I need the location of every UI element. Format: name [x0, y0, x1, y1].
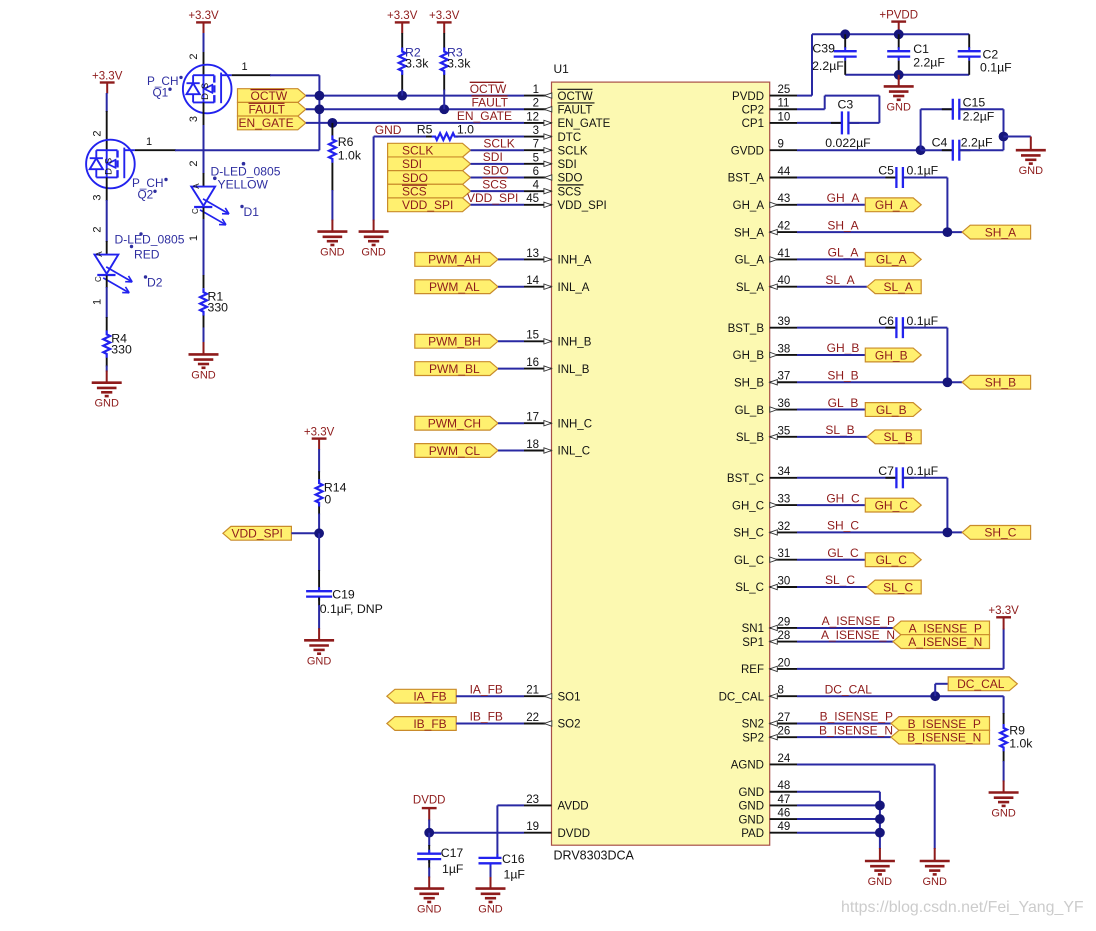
svg-text:3: 3 [533, 125, 539, 137]
wire junction to C19 [318, 533, 320, 571]
svg-text:SL_C: SL_C [825, 573, 855, 587]
junction EN_GATE/R6 [328, 118, 338, 128]
junction OCTW/R2 [397, 91, 407, 101]
svg-text:R5: R5 [417, 122, 433, 136]
wire SCLK [471, 149, 525, 151]
wire SL_A [797, 286, 867, 288]
svg-text:SP1: SP1 [742, 637, 764, 649]
U1 pin 31 (GL_C) [770, 559, 797, 561]
svg-text:SL_A: SL_A [883, 280, 912, 294]
junction DC_CAL [930, 691, 940, 701]
U1 pin 28 (SP1) [770, 641, 797, 643]
svg-text:https://blog.csdn.net/Fei_Yang: https://blog.csdn.net/Fei_Yang_YF [841, 899, 1084, 916]
junction +PVDD rail [894, 29, 904, 39]
svg-text:+3.3V: +3.3V [304, 426, 335, 438]
svg-text:GND: GND [738, 801, 764, 813]
net flag SH_C [962, 526, 1030, 540]
svg-text:Q2: Q2 [138, 187, 154, 201]
U1 pin 47 (GND) [770, 804, 797, 806]
svg-text:SL_B: SL_B [883, 430, 912, 444]
svg-text:SDO: SDO [402, 171, 428, 185]
svg-text:D2: D2 [147, 276, 163, 290]
capacitor C16 1uF [479, 857, 502, 859]
svg-text:CP2: CP2 [742, 104, 764, 116]
junction GND tap [999, 132, 1009, 142]
svg-text:21: 21 [526, 685, 539, 697]
LED D2 red [95, 255, 119, 274]
ground (R1) [189, 353, 219, 356]
svg-text:B_ISENSE_P: B_ISENSE_P [820, 710, 893, 724]
svg-text:2: 2 [91, 226, 103, 232]
U1 pin 1 (OCTW) [524, 95, 552, 97]
wire +3.3V to Q1 drain [203, 33, 205, 52]
svg-text:PWM_CH: PWM_CH [428, 417, 481, 431]
svg-text:1: 1 [188, 235, 200, 241]
wire to GND (DTC net) [373, 137, 375, 221]
capacitor C4 2.2uF [921, 149, 953, 151]
wire PWM_BL [498, 368, 524, 370]
wire SL_B [797, 436, 867, 438]
svg-text:SO1: SO1 [558, 691, 581, 703]
svg-text:1µF: 1µF [442, 862, 464, 876]
capacitor C5 0.1uF [885, 177, 896, 179]
svg-text:SDO: SDO [558, 173, 583, 185]
svg-text:D1: D1 [244, 205, 260, 219]
net flag SDO [388, 171, 471, 185]
net flag GH_B [865, 348, 921, 362]
svg-text:SDI: SDI [402, 157, 422, 171]
capacitor C39 2.2uF [844, 34, 846, 48]
svg-text:CP1: CP1 [742, 118, 764, 130]
IC U1 DRV8303DCA body [552, 82, 770, 845]
U1 pin 8 (DC_CAL) [770, 695, 797, 697]
svg-text:GND: GND [922, 876, 947, 888]
wire R6 to GND [331, 190, 333, 221]
wire DVDD [429, 832, 524, 834]
svg-text:IA_FB: IA_FB [470, 682, 503, 696]
U1 pin 14 (INL_A) [524, 286, 552, 288]
svg-text:PWM_AL: PWM_AL [429, 280, 480, 294]
svg-text:BST_A: BST_A [728, 173, 765, 185]
svg-text:C4: C4 [932, 136, 948, 150]
svg-text:FAULT: FAULT [249, 103, 286, 117]
U1 pin 42 (SH_A) [770, 231, 797, 233]
wire BST_B to C6 [797, 327, 896, 329]
svg-text:1: 1 [146, 136, 152, 148]
svg-text:SL_C: SL_C [883, 580, 913, 594]
wire GH_A [797, 204, 865, 206]
junction PAD [875, 828, 885, 838]
net flag SL_A [867, 280, 921, 294]
svg-text:IB_FB: IB_FB [470, 710, 503, 724]
svg-text:10: 10 [778, 111, 791, 123]
svg-text:DVDD: DVDD [558, 828, 591, 840]
wire GL_C [797, 559, 865, 561]
wire top cap rail [812, 33, 969, 35]
svg-text:GND: GND [417, 904, 442, 916]
wire C17 to GND [428, 868, 430, 878]
svg-text:6: 6 [533, 166, 539, 178]
svg-text:+3.3V: +3.3V [92, 70, 123, 82]
svg-text:A: A [95, 251, 104, 257]
svg-text:D: D [200, 93, 211, 100]
svg-text:DC_CAL: DC_CAL [825, 682, 873, 696]
wire PWM_CH [498, 422, 524, 424]
svg-text:GND: GND [307, 655, 332, 667]
svg-text:EN_GATE: EN_GATE [239, 116, 294, 130]
svg-text:PWM_CL: PWM_CL [429, 444, 481, 458]
U1 pin 2 (FAULT) [524, 108, 552, 110]
ground (GND pins) [865, 860, 895, 863]
wire to GND [1004, 136, 1031, 138]
svg-text:SH_C: SH_C [984, 526, 1016, 540]
capacitor C17 1uF [428, 833, 430, 846]
svg-text:GL_A: GL_A [828, 246, 859, 260]
svg-text:5: 5 [533, 152, 539, 164]
svg-text:2.2µF: 2.2µF [812, 59, 844, 73]
svg-text:12: 12 [526, 111, 539, 123]
svg-text:2.2µF: 2.2µF [961, 136, 993, 150]
wire SL_C [797, 586, 867, 588]
svg-text:B_ISENSE_N: B_ISENSE_N [819, 723, 893, 737]
ground (R9) [989, 791, 1019, 794]
svg-text:SCLK: SCLK [483, 136, 514, 150]
U1 pin 32 (SH_C) [770, 531, 797, 533]
svg-text:0.1µF, DNP: 0.1µF, DNP [320, 602, 383, 616]
svg-text:42: 42 [778, 221, 791, 233]
wire C6 to SH_B [903, 327, 948, 329]
svg-text:18: 18 [526, 439, 539, 451]
svg-text:SH_B: SH_B [985, 376, 1016, 390]
svg-text:27: 27 [778, 712, 791, 724]
U1 pin 27 (SN2) [770, 723, 797, 725]
svg-text:VDD_SPI: VDD_SPI [402, 198, 453, 212]
junction DVDD [424, 828, 434, 838]
svg-text:BST_B: BST_B [728, 323, 765, 335]
wire Q2 source to D2 [106, 177, 108, 201]
svg-text:19: 19 [526, 821, 539, 833]
svg-text:3.3k: 3.3k [405, 57, 429, 71]
svg-text:AVDD: AVDD [558, 801, 589, 813]
svg-text:GL_C: GL_C [827, 546, 859, 560]
svg-text:GH_B: GH_B [875, 348, 908, 362]
svg-text:GND: GND [191, 369, 216, 381]
U1 pin 13 (INH_A) [524, 258, 552, 260]
svg-text:VDD_SPI: VDD_SPI [558, 200, 607, 212]
svg-text:B_ISENSE_P: B_ISENSE_P [908, 717, 981, 731]
svg-text:23: 23 [526, 794, 539, 806]
svg-text:A_ISENSE_N: A_ISENSE_N [908, 635, 982, 649]
net flag B_ISENSE_P [891, 717, 990, 731]
wire R4 to GND [106, 358, 108, 367]
svg-text:GL_C: GL_C [734, 555, 764, 567]
U1 pin 15 (INH_B) [524, 340, 552, 342]
wire PWM_BH [498, 340, 524, 342]
net flag PWM_CH [415, 416, 498, 430]
svg-text:FAULT: FAULT [472, 95, 509, 109]
svg-text:PWM_BL: PWM_BL [429, 362, 480, 376]
svg-text:SCLK: SCLK [402, 144, 433, 158]
junction C1 bottom / GND [894, 70, 904, 80]
resistor R2 3.3k [399, 48, 406, 76]
svg-text:+3.3V: +3.3V [988, 605, 1019, 617]
svg-text:31: 31 [778, 548, 791, 560]
svg-text:0: 0 [324, 493, 331, 507]
ground (AGND) [920, 860, 950, 863]
ground (R4) [92, 381, 122, 384]
svg-text:2.2µF: 2.2µF [913, 56, 945, 70]
U1 pin 40 (SL_A) [770, 286, 797, 288]
U1 pin 26 (SP2) [770, 736, 797, 738]
wire BST_C to C7 [797, 477, 896, 479]
svg-text:11: 11 [778, 98, 790, 110]
svg-text:45: 45 [526, 193, 539, 205]
svg-text:GND: GND [478, 904, 503, 916]
net flag PWM_AH [415, 253, 498, 267]
U1 pin 19 (DVDD) [524, 832, 552, 834]
svg-text:34: 34 [778, 466, 791, 478]
wire C5 to SH_A [903, 177, 948, 179]
svg-text:SDI: SDI [558, 159, 577, 171]
wire SO1 [456, 695, 524, 697]
svg-text:2.2µF: 2.2µF [963, 109, 995, 123]
capacitor C15 2.2uF [942, 108, 953, 110]
svg-text:SH_A: SH_A [827, 218, 858, 232]
svg-text:2: 2 [188, 53, 200, 59]
U1 pin 37 (SH_B) [770, 381, 797, 383]
svg-text:9: 9 [778, 139, 784, 151]
svg-text:GH_A: GH_A [733, 200, 765, 212]
svg-text:DC_CAL: DC_CAL [719, 691, 765, 703]
svg-text:SP2: SP2 [742, 732, 764, 744]
svg-text:PVDD: PVDD [732, 91, 764, 103]
svg-text:43: 43 [778, 193, 791, 205]
svg-text:GND: GND [738, 814, 764, 826]
svg-text:FAULT: FAULT [558, 104, 593, 116]
svg-text:OCTW: OCTW [558, 91, 593, 103]
svg-text:Q1: Q1 [153, 85, 169, 99]
svg-text:SCS: SCS [402, 184, 427, 198]
svg-text:1.0k: 1.0k [1009, 737, 1033, 751]
wire DC_CAL flag branch [934, 684, 936, 696]
U1 pin 12 (EN_GATE) [524, 122, 552, 124]
wire DVDD power to junction [428, 820, 430, 833]
svg-text:3: 3 [91, 194, 103, 200]
svg-text:0.1µF: 0.1µF [980, 61, 1012, 75]
resistor R3 3.3k [441, 48, 448, 76]
net flag GH_A [865, 198, 921, 212]
svg-text:SH_B: SH_B [734, 377, 764, 389]
wire GND corner to R5 [374, 136, 434, 138]
svg-text:SH_C: SH_C [733, 528, 764, 540]
wire C15/C4 right join [959, 108, 1003, 110]
svg-text:+3.3V: +3.3V [429, 10, 460, 22]
svg-text:22: 22 [526, 712, 539, 724]
svg-text:DRV8303DCA: DRV8303DCA [554, 849, 635, 863]
wire GVDD [797, 149, 921, 151]
U1 pin 45 (VDD_SPI) [524, 204, 552, 206]
svg-text:1: 1 [533, 84, 539, 96]
ground (R6) [317, 230, 347, 233]
resistor R6 1.0k [331, 123, 333, 136]
U1 pin 33 (GH_C) [770, 504, 797, 506]
ground (C17) [414, 887, 444, 890]
wire BST_A to C5 [797, 177, 896, 179]
svg-text:GL_B: GL_B [876, 403, 907, 417]
net flag OCTW [238, 89, 306, 103]
wire +3.3V to R14 [318, 449, 320, 472]
svg-text:+3.3V: +3.3V [188, 10, 219, 22]
U1 pin 39 (BST_B) [770, 327, 797, 329]
svg-text:GND: GND [738, 787, 764, 799]
wire R5 to DTC pin [456, 136, 524, 138]
wire REF [797, 668, 1004, 670]
svg-text:INL_C: INL_C [558, 446, 591, 458]
ground (C15/C4) [1016, 149, 1046, 152]
svg-text:INH_A: INH_A [558, 255, 592, 267]
LED D1 yellow [191, 187, 215, 206]
svg-text:SDO: SDO [483, 164, 509, 178]
U1 pin 4 (SCS) [524, 190, 552, 192]
svg-text:GH_A: GH_A [827, 191, 860, 205]
wire PWM_AL [498, 286, 524, 288]
svg-text:SN1: SN1 [742, 623, 764, 635]
svg-text:D-LED_0805: D-LED_0805 [115, 233, 185, 247]
resistor R9 1.0k [1003, 696, 1005, 714]
svg-text:3: 3 [188, 116, 200, 122]
svg-text:0.022µF: 0.022µF [825, 136, 871, 150]
svg-text:C15: C15 [963, 95, 986, 109]
svg-text:D-LED_0805: D-LED_0805 [211, 164, 281, 178]
wire SH_B row [797, 381, 962, 383]
svg-text:29: 29 [778, 616, 791, 628]
wire SDI [471, 163, 525, 165]
svg-text:SDI: SDI [483, 150, 503, 164]
svg-text:SL_B: SL_B [736, 432, 764, 444]
net flag A_ISENSE_N [893, 635, 990, 649]
svg-text:SO2: SO2 [558, 719, 581, 731]
U1 pin 23 (AVDD) [524, 804, 552, 806]
wire GH_C [797, 504, 865, 506]
svg-text:47: 47 [778, 794, 791, 806]
svg-text:7: 7 [533, 139, 539, 151]
svg-text:30: 30 [778, 575, 791, 587]
svg-text:INH_C: INH_C [558, 418, 593, 430]
U1 pin 36 (GL_B) [770, 409, 797, 411]
wire R3 to FAULT [443, 90, 445, 110]
svg-text:40: 40 [778, 275, 791, 287]
svg-text:GH_B: GH_B [733, 350, 765, 362]
svg-text:25: 25 [778, 84, 791, 96]
capacitor C7 0.1uF [885, 477, 896, 479]
svg-text:GH_B: GH_B [827, 341, 860, 355]
junction GVDD [916, 145, 926, 155]
svg-text:EN_GATE: EN_GATE [457, 109, 512, 123]
svg-text:15: 15 [526, 330, 539, 342]
svg-text:GND: GND [991, 808, 1016, 820]
U1 pin 43 (GH_A) [770, 204, 797, 206]
svg-text:INL_B: INL_B [558, 364, 590, 376]
svg-text:+PVDD: +PVDD [879, 9, 918, 21]
svg-text:SCLK: SCLK [558, 145, 588, 157]
svg-text:D: D [103, 168, 114, 175]
svg-text:GND: GND [320, 247, 345, 259]
svg-text:44: 44 [778, 166, 791, 178]
svg-text:48: 48 [778, 780, 791, 792]
U1 pin 22 (SO2) [524, 723, 552, 725]
net flag VDD_SPI [223, 526, 292, 540]
wire +3.3V to R2 [401, 33, 403, 48]
wire C7 to SH_C [903, 477, 948, 479]
wire R1 to GND [203, 316, 205, 329]
U1 pin 29 (SN1) [770, 627, 797, 629]
net flag PWM_BL [415, 362, 498, 376]
junction OCTW/Q1 gate [315, 91, 325, 101]
wire SP2 [797, 736, 891, 738]
transistor Q1 P_CH [183, 65, 232, 114]
U1 pin 5 (SDI) [524, 163, 552, 165]
svg-text:INH_B: INH_B [558, 337, 592, 349]
svg-text:16: 16 [526, 357, 539, 369]
junction VDD_SPI [314, 528, 324, 538]
U1 pin 48 (GND) [770, 791, 797, 793]
U1 pin 11 (CP2) [770, 108, 797, 110]
U1 pin 17 (INH_C) [524, 422, 552, 424]
svg-text:24: 24 [778, 753, 791, 765]
svg-text:S: S [103, 158, 114, 164]
wire SN2 [797, 723, 891, 725]
net flag PWM_CL [415, 444, 498, 458]
svg-text:C7: C7 [878, 464, 894, 478]
svg-text:PAD: PAD [741, 828, 764, 840]
net flag GL_C [865, 553, 921, 567]
svg-text:GL_B: GL_B [828, 396, 859, 410]
wire OCTW row [306, 95, 524, 97]
net flag PWM_BH [415, 334, 498, 348]
wire R9 to GND [1003, 761, 1005, 782]
svg-text:R6: R6 [338, 135, 354, 149]
svg-text:A: A [192, 183, 201, 189]
svg-text:IA_FB: IA_FB [413, 690, 446, 704]
U1 pin 18 (INL_C) [524, 450, 552, 452]
wire SN1 [797, 627, 893, 629]
svg-text:PWM_AH: PWM_AH [428, 253, 481, 267]
svg-text:GVDD: GVDD [731, 145, 764, 157]
capacitor C19 0.1uF DNP [306, 590, 332, 592]
svg-text:46: 46 [778, 807, 791, 819]
junction SH_A [943, 227, 953, 237]
svg-text:INL_A: INL_A [558, 282, 590, 294]
svg-text:GL_A: GL_A [735, 255, 765, 267]
net flag B_ISENSE_N [891, 730, 990, 744]
svg-text:41: 41 [778, 248, 791, 260]
U1 pin 10 (CP1) [770, 122, 797, 124]
svg-text:GH_A: GH_A [875, 198, 908, 212]
wire R14 to junction [318, 514, 320, 534]
net flag SL_B [867, 430, 921, 444]
svg-text:33: 33 [778, 494, 791, 506]
ground (C16) [476, 887, 506, 890]
U1 pin 34 (BST_C) [770, 477, 797, 479]
U1 pin 3 (DTC) [524, 136, 552, 138]
capacitor C2 0.1uF [968, 34, 970, 48]
svg-text:C: C [191, 208, 200, 214]
svg-text:SN2: SN2 [742, 719, 764, 731]
svg-text:1µF: 1µF [504, 867, 526, 881]
svg-text:C: C [94, 276, 103, 282]
svg-text:OCTW: OCTW [470, 82, 507, 96]
svg-text:+3.3V: +3.3V [387, 10, 418, 22]
